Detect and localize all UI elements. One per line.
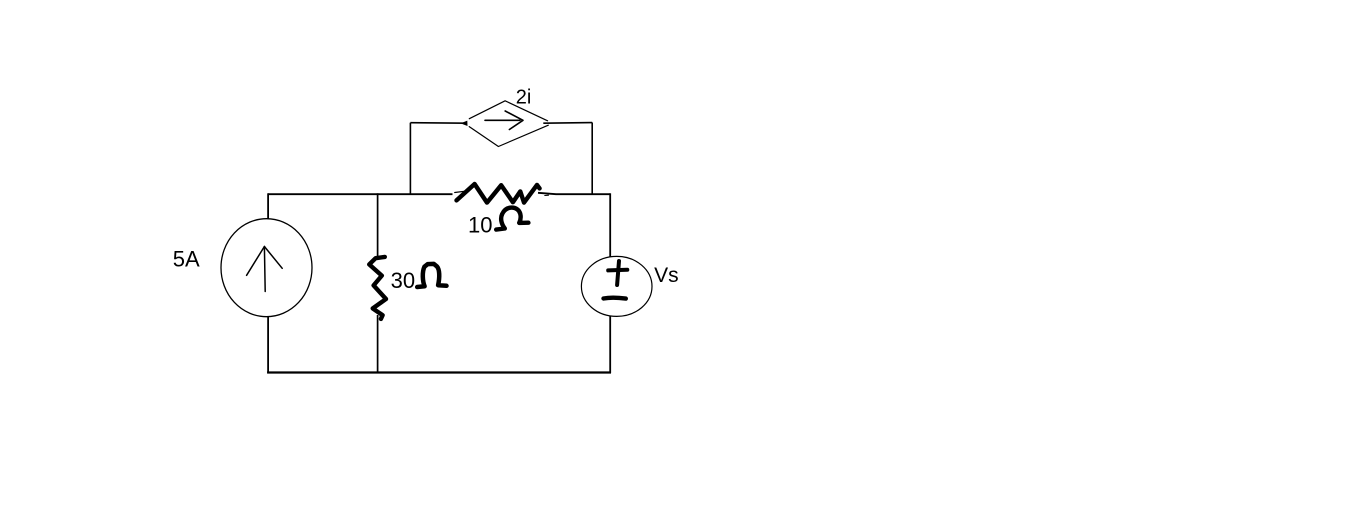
- dependent source arrowhead: [505, 111, 523, 130]
- wire: bottom rail: [267, 371, 611, 373]
- dependent source arrow shaft: [485, 119, 520, 121]
- wire: top rail right segment: [538, 193, 610, 194]
- wire: sub-loop left vertical: [409, 123, 411, 195]
- svg-text:5A: 5A: [173, 246, 200, 271]
- resistor R1 omega symbol: [496, 208, 528, 230]
- current source I1 arrow shaft: [263, 247, 266, 292]
- voltage source Vs circle: [581, 256, 652, 316]
- svg-text:Vs: Vs: [654, 264, 679, 287]
- wire: small dash right of 10-ohm: [545, 194, 549, 196]
- svg-text:30: 30: [391, 268, 415, 293]
- voltage source plus sign: [617, 261, 619, 285]
- resistor R2 omega symbol: [417, 264, 446, 287]
- wire: thin dash over 10-ohm start: [455, 191, 469, 193]
- wire: right vertical lower: [609, 316, 611, 373]
- wire: middle vertical upper: [377, 193, 379, 256]
- dependent source diamond upper edges: [469, 101, 547, 121]
- svg-text:10: 10: [468, 213, 492, 238]
- current source I1 arrow left barb: [247, 247, 265, 276]
- dependent source diamond lower edges: [469, 125, 548, 146]
- voltage source minus sign: [604, 296, 626, 301]
- dependent source left vertex blob: [461, 121, 468, 126]
- wire: sub-loop top right: [543, 122, 592, 125]
- wire: middle vertical lower: [377, 315, 379, 372]
- resistor R2 30-ohm squiggle: [369, 257, 386, 319]
- wire: top rail left segment: [268, 193, 452, 195]
- wire: right vertical upper: [609, 193, 611, 257]
- current source I1 arrow right barb: [264, 247, 282, 269]
- wire: sub-loop top left: [410, 122, 466, 125]
- resistor R1 10-ohm zigzag: [457, 184, 540, 203]
- wire: sub-loop right vertical: [591, 123, 593, 195]
- current source I1 circle: [221, 219, 312, 317]
- svg-text:2i: 2i: [516, 86, 532, 108]
- wire: left vertical lower: [267, 317, 269, 374]
- wire: left vertical upper: [267, 193, 269, 219]
